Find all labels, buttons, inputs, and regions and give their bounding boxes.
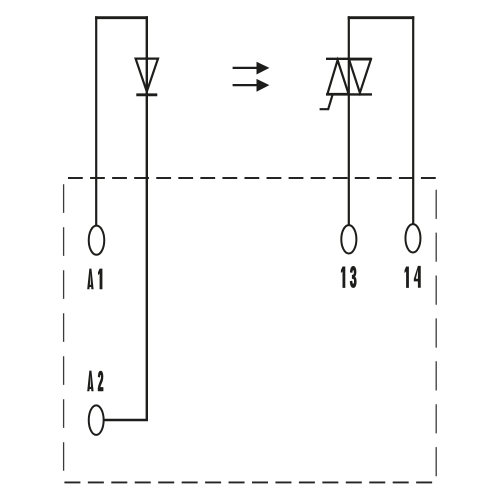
terminal A1 circle <box>89 226 105 255</box>
optocoupler arrow 2 shaft <box>233 84 258 86</box>
triac right triangle (pointing down) <box>349 59 371 92</box>
terminal 13 circle <box>341 225 356 253</box>
triac bottom bar (MT1) <box>326 93 372 95</box>
triac gate lead <box>320 95 333 110</box>
wire: A1 vertical branch <box>95 16 97 225</box>
wire: terminal 14 vertical branch <box>412 16 414 224</box>
wire: right circuit top bar <box>348 16 415 19</box>
dashed enclosure box right edge <box>435 190 437 477</box>
terminal 14 circle <box>405 224 420 252</box>
label 14 <box>405 266 421 288</box>
dashed enclosure box left edge <box>63 184 65 471</box>
label 13 <box>341 266 356 287</box>
wire: LED branch vertical down to A2 bend <box>105 16 147 420</box>
label A1 <box>87 269 102 290</box>
terminal A2 circle <box>89 405 104 435</box>
LED cathode bar <box>136 93 157 96</box>
optocoupler arrow 1 head <box>257 62 270 75</box>
optocoupler arrow 2 head <box>257 79 270 92</box>
optocoupler arrow 1 shaft <box>233 67 258 69</box>
label A2 <box>87 371 103 392</box>
wire: left circuit top bar <box>95 16 148 19</box>
dashed enclosure box top edge <box>68 177 436 179</box>
dashed enclosure box bottom edge <box>64 481 432 483</box>
LED diode triangle <box>136 59 158 92</box>
wire: triac branch vertical <box>348 16 350 225</box>
triac top bar (MT2) <box>326 58 372 60</box>
triac left triangle (pointing up) <box>327 60 348 94</box>
